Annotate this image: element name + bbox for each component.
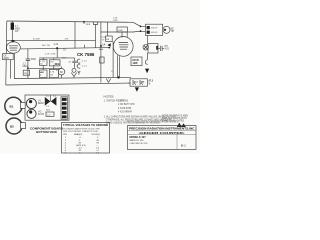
svg-text:100 UF: 100 UF	[151, 32, 159, 34]
capacitor C9	[158, 46, 164, 51]
label 2.2K 10W	[113, 18, 118, 22]
label C1	[31, 59, 37, 61]
notes text block	[104, 101, 176, 125]
notes heading	[104, 95, 115, 99]
wire T1 bottom drop	[147, 35, 149, 44]
svg-text:680K: 680K	[31, 59, 37, 61]
svg-text:NO1: NO1	[165, 49, 170, 51]
svg-text:6EA8(V): 6EA8(V)	[74, 133, 83, 136]
battery holder B1	[5, 97, 25, 114]
resistor R1 filled body	[11, 21, 14, 41]
label near node below	[63, 49, 67, 51]
svg-text:2.2K: 2.2K	[54, 44, 59, 46]
label 2.2K 470K pair	[45, 53, 56, 55]
battery holder B2	[6, 118, 25, 134]
wire vertical x101	[100, 22, 102, 83]
wire boxes top feed	[39, 57, 75, 59]
wire left chassis border	[6, 21, 7, 85]
svg-text:6EA8: 6EA8	[38, 102, 44, 105]
svg-text:6CU5: 6CU5	[38, 114, 45, 116]
label pilot	[165, 46, 170, 51]
node junction	[27, 67, 29, 69]
svg-text:6CU5(V): 6CU5(V)	[92, 134, 101, 136]
jack symbol under bus	[106, 78, 111, 83]
svg-text:4 X10 MR/HR: 4 X10 MR/HR	[118, 111, 132, 113]
label 1A	[102, 43, 105, 46]
wire vertical x113	[112, 42, 114, 78]
voltage table col heads	[63, 133, 100, 136]
svg-text:TIP: TIP	[171, 31, 175, 33]
svg-text:REPLACE PARTS WITH: REPLACE PARTS WITH	[162, 117, 187, 120]
capacitor C3 on x74.5	[72, 58, 76, 68]
battery B1 box	[130, 79, 147, 86]
svg-text:30K: 30K	[42, 45, 46, 47]
svg-text:= = =: = = =	[82, 66, 88, 68]
svg-text:MODELS 107: MODELS 107	[130, 135, 147, 139]
svg-text:1M: 1M	[24, 73, 27, 75]
label T-1 T-2	[46, 96, 57, 98]
title small print above box	[128, 121, 180, 124]
svg-text:47K: 47K	[65, 38, 69, 40]
title row models	[130, 135, 147, 139]
logo triangles	[177, 123, 186, 127]
svg-text:1W: 1W	[50, 74, 53, 76]
label J1	[171, 28, 175, 33]
wire row y68.3	[28, 67, 58, 69]
component box on rail y32	[117, 27, 127, 32]
label V1 box	[3, 54, 14, 61]
tube V2 leads	[118, 55, 120, 77]
svg-text:NOTE: FOR 117V AC OPERATION US: NOTE: FOR 117V AC OPERATION USE MODEL 2	[128, 121, 180, 124]
resistor R2 box	[23, 70, 29, 75]
voltage table subtext	[63, 128, 100, 133]
label under rail	[86, 24, 91, 26]
capacitor C1	[26, 49, 30, 79]
wire grid column b	[53, 58, 55, 78]
title sheet number	[181, 143, 186, 147]
label 33K	[36, 38, 40, 40]
label PLP	[102, 37, 107, 41]
label 2.2 MEG	[23, 64, 28, 69]
component box R4	[40, 70, 48, 78]
coil blob in loop box	[156, 46, 158, 50]
label P1 dashes	[82, 61, 88, 63]
svg-text:PIN: PIN	[63, 134, 67, 136]
svg-text:MADE BY MG: MADE BY MG	[130, 139, 144, 142]
meter M1	[58, 67, 65, 78]
notes right block	[162, 115, 188, 122]
ground arrow small	[145, 69, 149, 74]
svg-text:NOTES:: NOTES:	[104, 95, 115, 99]
title block box	[128, 126, 197, 150]
connector P2 hook	[77, 64, 80, 68]
svg-text:1026: 1026	[3, 57, 9, 60]
tube V1 CK1026 envelope	[6, 42, 20, 53]
jack J2	[71, 68, 76, 77]
loop box DS1	[148, 44, 158, 53]
wire grid column a	[42, 58, 44, 78]
node dot wire end	[108, 47, 110, 49]
jack J3 hook	[145, 53, 147, 64]
svg-text:TYPICAL VOLTAGES TO GROUND: TYPICAL VOLTAGES TO GROUND	[63, 123, 108, 127]
wire vertical x95	[95, 25, 97, 48]
title cell divider	[176, 134, 178, 149]
svg-text:2 ON BATT CHK: 2 ON BATT CHK	[118, 103, 135, 106]
voltage table header	[63, 123, 108, 127]
board small part	[46, 112, 54, 116]
svg-text:B2: B2	[10, 124, 14, 128]
node dot T1 lower	[140, 30, 142, 32]
wire vertical x75 top	[74, 22, 76, 49]
svg-text:680K: 680K	[62, 58, 68, 60]
socket V1 bottom view	[26, 99, 36, 109]
svg-text:B-1: B-1	[181, 143, 186, 147]
label meter plus	[56, 69, 58, 72]
svg-text:BOTTOM VIEW: BOTTOM VIEW	[36, 130, 57, 134]
label B1	[149, 81, 154, 86]
component box CR2	[49, 60, 60, 66]
junction stub x84.5	[84, 45, 86, 48]
label P2 dashes	[82, 66, 88, 68]
label 47K	[65, 38, 69, 40]
transformer footprint butterfly	[45, 97, 57, 106]
node dot leads to bus	[117, 76, 119, 78]
node dot top rail	[83, 21, 85, 24]
label CK 7586 bold	[77, 52, 95, 57]
label socket V2	[38, 111, 45, 116]
terminal strip	[61, 97, 68, 119]
label R1	[15, 25, 21, 33]
wire V1 plate out	[20, 48, 109, 49]
component box CR1	[40, 60, 48, 66]
svg-text:1 OFF: 1 OFF	[118, 101, 125, 103]
svg-text:CHECKED BY RD: CHECKED BY RD	[130, 143, 148, 145]
svg-text:470K: 470K	[50, 53, 56, 55]
label B plus on rail	[33, 38, 36, 40]
wire rail to T1 upper	[133, 22, 145, 26]
title row company	[129, 127, 195, 131]
svg-text:100K: 100K	[118, 30, 123, 32]
svg-text:CK 7586: CK 7586	[77, 52, 95, 57]
wire node drop	[56, 48, 58, 58]
ground arrow main	[135, 87, 139, 91]
voltage table rows	[65, 137, 100, 154]
svg-text:•GEIGER COUNTER•: •GEIGER COUNTER•	[139, 131, 185, 135]
svg-text:1. SWITCH POSITIONS: 1. SWITCH POSITIONS	[104, 101, 129, 103]
svg-text:4.7K: 4.7K	[50, 72, 55, 74]
svg-text:NEG: NEG	[55, 64, 60, 66]
tube V1 pin leads	[11, 53, 15, 79]
tube V1 top cap	[11, 40, 14, 42]
wire tube V2 top feed	[121, 32, 123, 38]
label 30K 1W	[42, 45, 51, 47]
component box R5	[49, 69, 58, 77]
tube V2 top pin stub	[126, 32, 128, 37]
svg-text:12W: 12W	[132, 62, 138, 65]
label V2 box	[131, 57, 142, 66]
wire top rail	[7, 21, 133, 22]
title row separator 2	[128, 133, 197, 135]
wire rail y32	[101, 31, 133, 33]
svg-text:PER VOLT METER, LINE AT 117V A: PER VOLT METER, LINE AT 117V AC	[63, 130, 99, 133]
caption component board	[30, 127, 63, 134]
label C3	[68, 61, 72, 63]
connector P1 hook	[77, 59, 80, 63]
title row product	[139, 131, 185, 135]
fuse notch on rail	[94, 22, 98, 25]
title row separator 1	[128, 130, 197, 132]
component box on x107.7	[106, 36, 113, 42]
svg-text:3 X100 R/HR: 3 X100 R/HR	[118, 108, 132, 110]
title row checked by	[130, 143, 148, 145]
wire bottom chassis border	[6, 83, 131, 85]
connector dot T	[99, 45, 103, 49]
pilot lamp DS1	[143, 45, 148, 50]
socket V2 bottom view	[27, 109, 36, 118]
svg-text:1A: 1A	[102, 43, 105, 46]
svg-text:B1: B1	[10, 104, 14, 108]
wire anode rail	[6, 39, 95, 41]
svg-text:33K: 33K	[36, 38, 40, 40]
svg-text:250 UF: 250 UF	[151, 28, 159, 30]
title row made by	[130, 139, 144, 142]
svg-text:NFB: NFB	[86, 24, 91, 26]
wire vertical x107.7	[107, 22, 109, 36]
jack J1	[163, 26, 170, 33]
label x113	[111, 71, 114, 73]
arrow marker node A	[107, 43, 110, 47]
svg-text:67.5: 67.5	[149, 81, 154, 83]
wire rail to T1 lower	[133, 30, 145, 33]
tube V2 electrodes	[119, 43, 129, 50]
svg-text:= = =: = = =	[82, 61, 88, 63]
node dot on plate wire	[56, 47, 58, 49]
jack P3 small	[78, 71, 81, 75]
label 680K mid	[62, 58, 68, 60]
resistor R7 box on x102	[100, 57, 104, 63]
label under butterfly	[46, 106, 51, 111]
svg-text:1M: 1M	[106, 39, 109, 41]
component board outline	[25, 95, 69, 120]
transformer T1 box	[145, 24, 162, 35]
tube V2 6CU5 envelope	[113, 37, 133, 57]
voltage table box	[62, 123, 110, 154]
wire ground bus inner	[14, 77, 131, 78]
label 2.2K node	[54, 44, 59, 46]
butterfly stem	[50, 95, 52, 101]
label socket V1	[38, 100, 44, 105]
svg-text:2.2K: 2.2K	[45, 53, 50, 55]
node dot T1 upper	[140, 26, 142, 28]
tube V1 electrodes	[9, 46, 18, 50]
